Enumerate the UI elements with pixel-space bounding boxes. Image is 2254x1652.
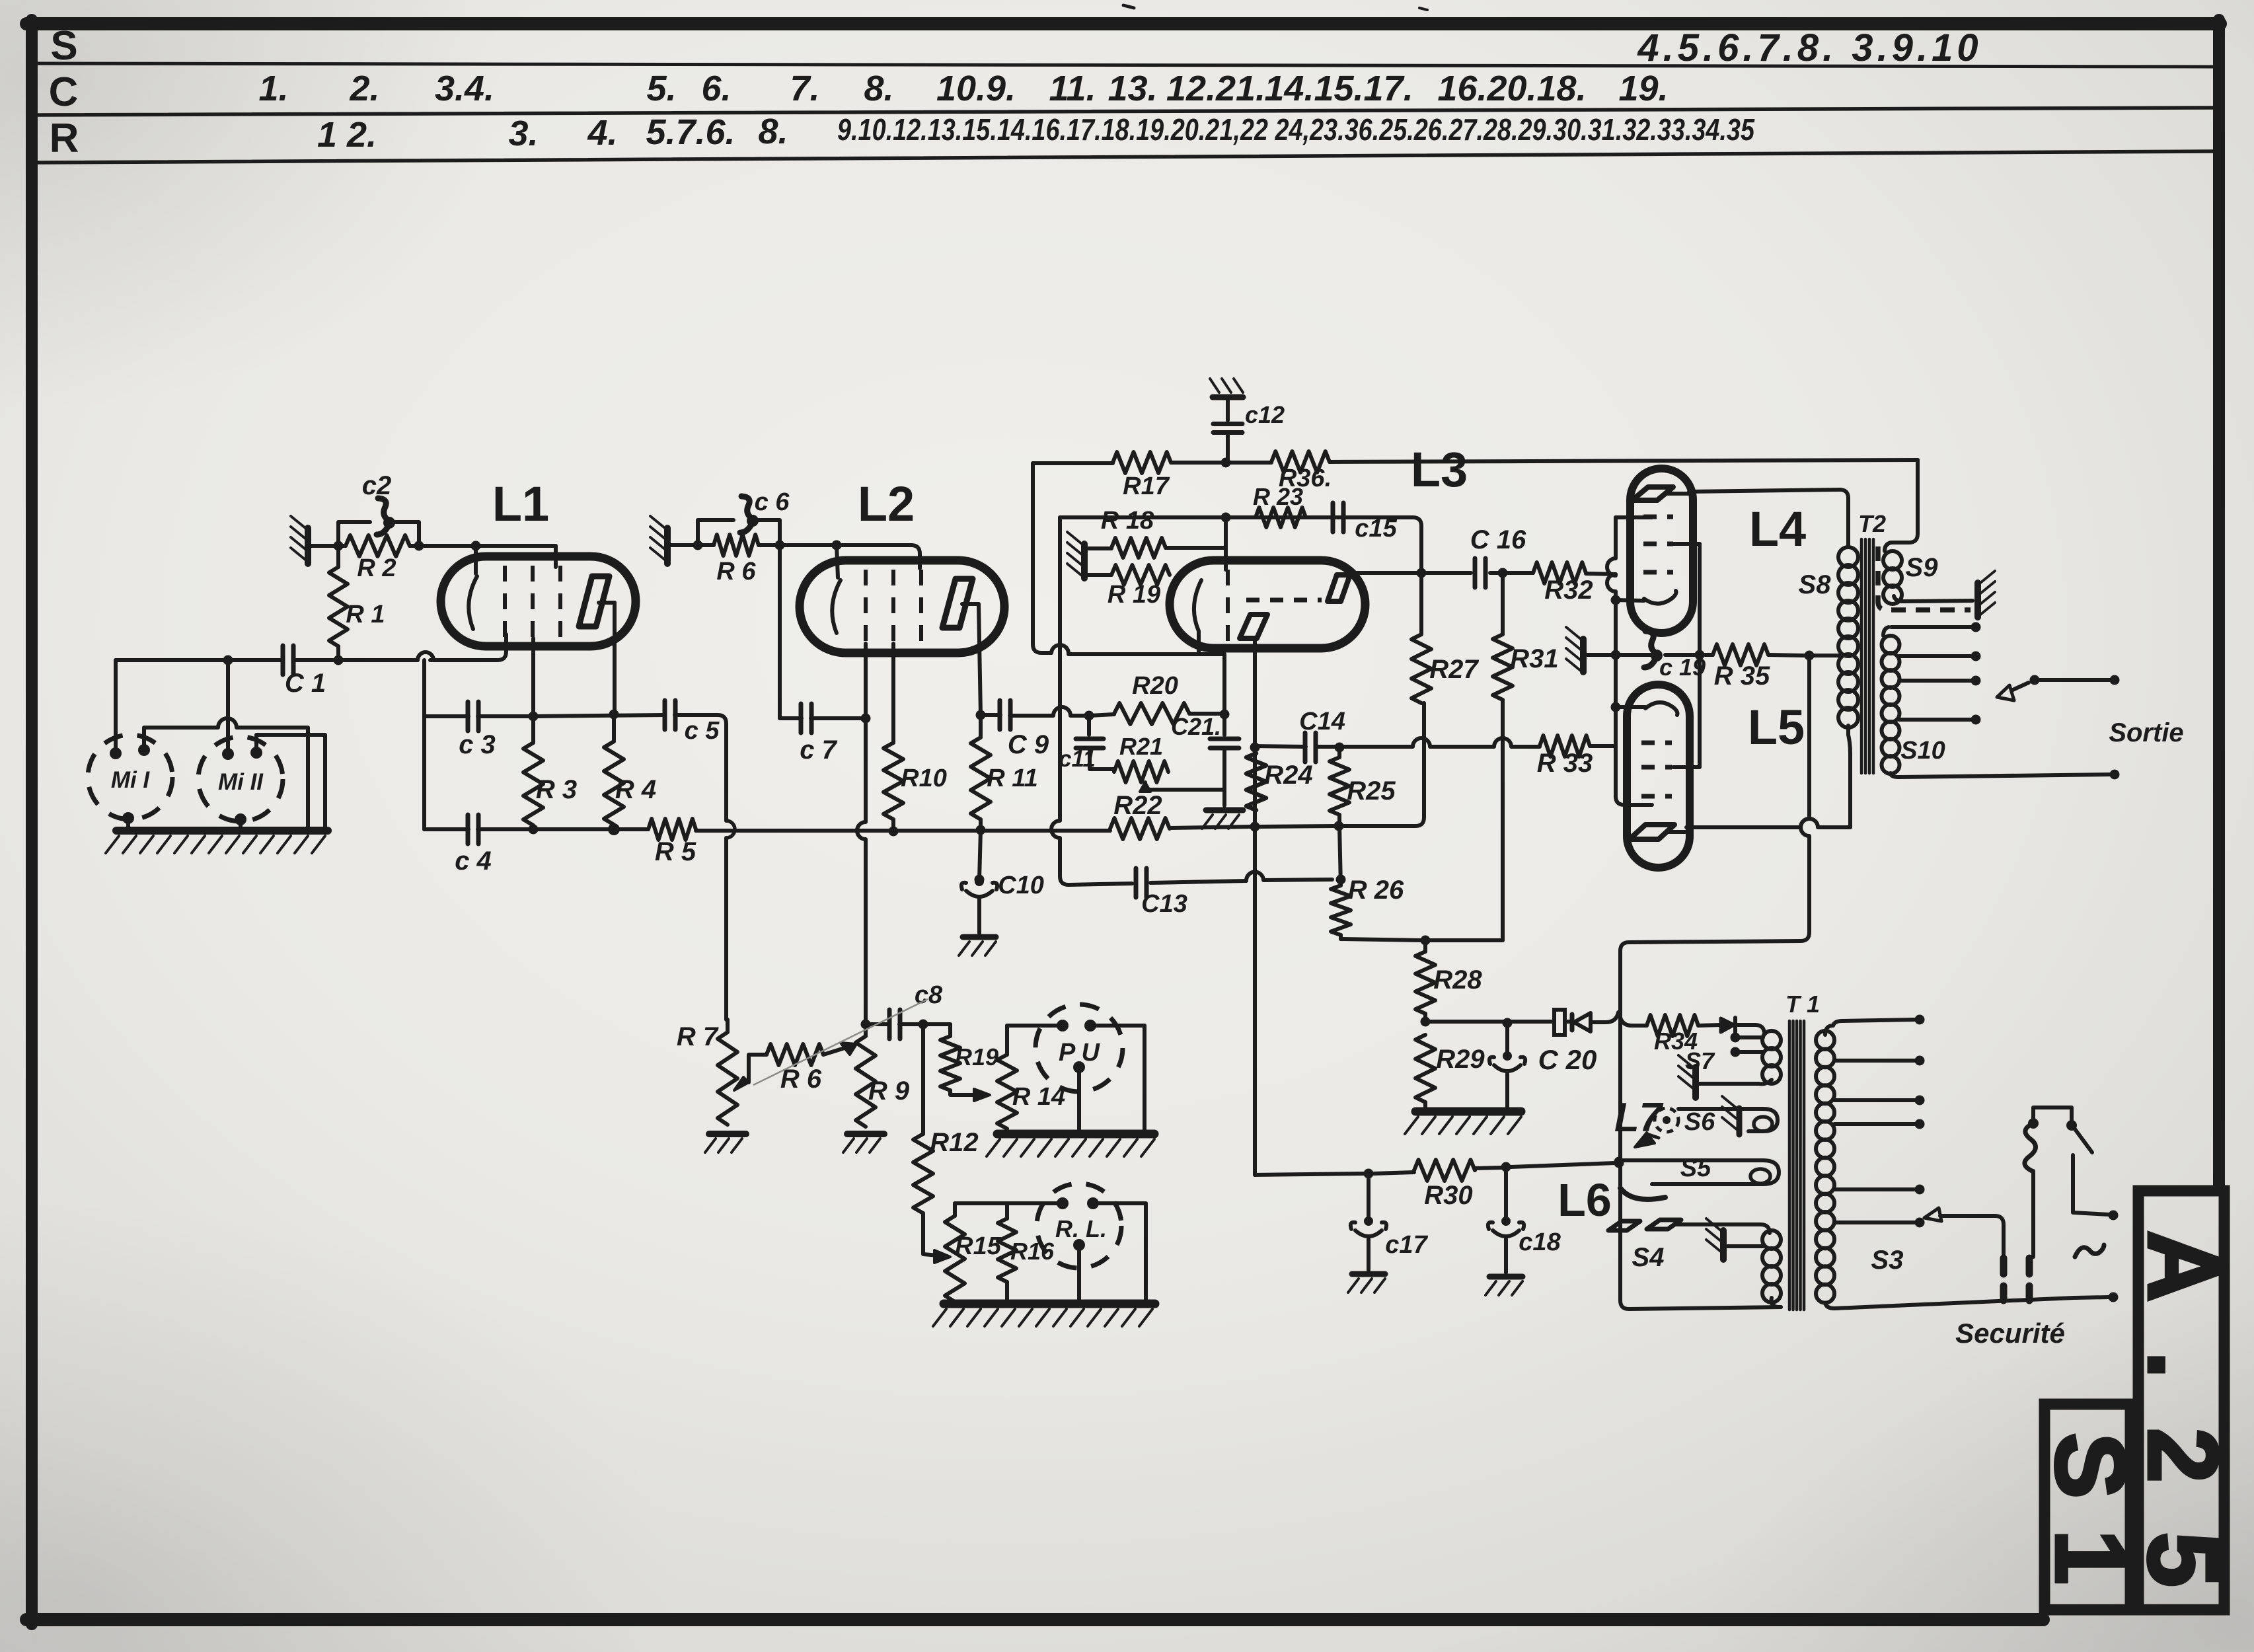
paper mark 1 bbox=[1123, 5, 1134, 8]
svg-text:R22: R22 bbox=[1113, 791, 1162, 820]
node L2 g1 bbox=[861, 714, 871, 724]
node C12 bbox=[1221, 458, 1231, 468]
label R30 bbox=[1424, 1181, 1472, 1210]
label C7 bbox=[800, 735, 837, 765]
L2 anode wire down bbox=[979, 604, 981, 715]
label R14 bbox=[1012, 1083, 1065, 1111]
L1 grid stem top bbox=[554, 546, 558, 567]
RL pins bbox=[1057, 1197, 1099, 1251]
wire L2g1 to R9 C8 bbox=[861, 1018, 928, 1030]
svg-text:11.: 11. bbox=[1049, 69, 1096, 108]
resistor R24 bbox=[1246, 753, 1266, 810]
ground under R7 bbox=[705, 1134, 746, 1152]
RL bottom stem bbox=[1077, 1245, 1081, 1299]
svg-text:c17: c17 bbox=[1385, 1231, 1428, 1259]
svg-text:R 33: R 33 bbox=[1537, 749, 1593, 778]
label Securite bbox=[1955, 1318, 2065, 1349]
faint gang line bbox=[753, 999, 928, 1085]
S4 coil bbox=[1762, 1230, 1781, 1307]
resistor R2 bbox=[346, 535, 410, 556]
resistor R29 bbox=[1415, 1035, 1435, 1109]
label R16 bbox=[1010, 1238, 1055, 1265]
svg-text:R 1: R 1 bbox=[346, 601, 385, 628]
capacitor C17 bbox=[1351, 1174, 1386, 1270]
HT rail bbox=[1033, 460, 1918, 463]
svg-text:R12: R12 bbox=[930, 1128, 978, 1157]
capacitor C5 bbox=[665, 700, 675, 730]
ground bar under mics bbox=[106, 831, 328, 853]
S10 taps bbox=[1899, 652, 1981, 725]
main bus left part bbox=[424, 827, 648, 831]
resistor R35 bbox=[1713, 644, 1768, 665]
L4 grid rows dashed bbox=[1643, 517, 1673, 572]
nodes on R2 line bbox=[334, 541, 481, 551]
svg-text:c 19: c 19 bbox=[1659, 654, 1706, 681]
svg-text:R28: R28 bbox=[1433, 965, 1482, 995]
wire input line to C1 bbox=[116, 658, 418, 662]
L6 cathode arc bbox=[1620, 1188, 1665, 1199]
S8 bottom to L5 anode bbox=[1848, 735, 1850, 827]
resistor R27 bbox=[1411, 568, 1431, 703]
mains plug pin2 bottom bbox=[2026, 1286, 2033, 1300]
S4 ground bbox=[1706, 1219, 1763, 1259]
ground for S7 bbox=[1678, 1055, 1759, 1098]
grid rail of L3 bbox=[1060, 517, 1421, 568]
svg-text:c 3: c 3 bbox=[459, 730, 496, 759]
S9 coil bbox=[1883, 543, 1972, 604]
L5 anode line out bbox=[1667, 819, 1850, 832]
node C20 top bbox=[1503, 1018, 1513, 1028]
svg-text:L1: L1 bbox=[492, 476, 549, 531]
wire Mi II right pin to ground bbox=[256, 735, 325, 827]
svg-text:C10: C10 bbox=[998, 872, 1044, 899]
mains switch blade bbox=[2074, 1127, 2092, 1152]
label L3 bbox=[1411, 442, 1468, 497]
svg-text:1 2.: 1 2. bbox=[317, 115, 377, 155]
L4 cathode bbox=[1644, 591, 1676, 604]
label C8 bbox=[915, 981, 943, 1009]
label C13 bbox=[1141, 890, 1187, 918]
ground in S6 bbox=[1722, 1096, 1739, 1135]
svg-text:S5: S5 bbox=[1680, 1154, 1711, 1182]
label C3 bbox=[459, 730, 496, 759]
resistor R28 bbox=[1415, 940, 1435, 1022]
svg-text:c12: c12 bbox=[1245, 401, 1285, 428]
label R24 bbox=[1264, 761, 1312, 790]
capacitor C8 bbox=[889, 1010, 900, 1039]
label S7 bbox=[1685, 1047, 1715, 1074]
label R7 bbox=[677, 1022, 719, 1051]
svg-text:L4: L4 bbox=[1749, 502, 1806, 556]
svg-text:R 11: R 11 bbox=[987, 765, 1037, 792]
label C12 bbox=[1245, 401, 1285, 428]
node R11 top bbox=[976, 710, 986, 720]
mains switch contacts bbox=[2028, 1118, 2077, 1131]
diode D2 bbox=[1721, 1018, 1735, 1032]
svg-text:R31: R31 bbox=[1510, 644, 1558, 673]
svg-text:16.20.18.: 16.20.18. bbox=[1437, 69, 1586, 108]
T2 screen dashed bbox=[1878, 546, 1971, 610]
node grid bus at C19 line bbox=[1611, 650, 1621, 660]
label R12 bbox=[930, 1128, 978, 1157]
wire C14 to R33 bbox=[1316, 738, 1540, 747]
label R3 bbox=[536, 775, 577, 804]
svg-text:L6: L6 bbox=[1558, 1174, 1612, 1226]
table line under C bbox=[38, 108, 2213, 115]
svg-text:R 9: R 9 bbox=[868, 1076, 910, 1106]
S5 hairpin bbox=[1620, 1160, 1779, 1184]
node R20 right bbox=[1220, 710, 1230, 720]
label C20 bbox=[1538, 1044, 1597, 1075]
trimmer C2 loop bbox=[338, 522, 419, 546]
L3 cathode return line bbox=[1051, 645, 1224, 735]
svg-text:R17: R17 bbox=[1123, 472, 1170, 500]
label R17 bbox=[1123, 472, 1170, 500]
L3 cathode bbox=[1194, 580, 1201, 654]
svg-text:R10: R10 bbox=[901, 765, 947, 792]
svg-text:R20: R20 bbox=[1132, 672, 1178, 700]
node C10 top bbox=[975, 875, 985, 885]
label R4 bbox=[615, 775, 656, 804]
label R23 bbox=[1253, 483, 1303, 510]
ground under C18 bbox=[1485, 1277, 1522, 1295]
label R26 bbox=[1348, 876, 1404, 905]
resistor R31 bbox=[1493, 573, 1513, 932]
wire C5 right corner down bbox=[675, 715, 726, 1020]
svg-text:Mi I: Mi I bbox=[111, 767, 151, 793]
resistor R30 bbox=[1414, 1160, 1475, 1181]
S10 bottom line bbox=[1899, 770, 2120, 780]
wire Mi I left pin up bbox=[114, 660, 118, 753]
label C17 bbox=[1385, 1231, 1428, 1259]
L1 grid1 wire bottom bbox=[0, 0, 1, 1]
label R6 bbox=[780, 1065, 822, 1094]
resistor R34 bbox=[1647, 1015, 1698, 1036]
output selector arrow bbox=[1997, 675, 2120, 701]
L1 grids dashed bbox=[505, 566, 560, 638]
svg-text:C: C bbox=[49, 69, 79, 115]
resistor R16 bbox=[998, 1203, 1016, 1302]
label S4 bbox=[1632, 1243, 1665, 1272]
svg-text:5.7.6.: 5.7.6. bbox=[646, 112, 735, 152]
svg-text:R. L.: R. L. bbox=[1055, 1215, 1107, 1242]
label R19 bbox=[1108, 581, 1160, 609]
svg-text:S7: S7 bbox=[1685, 1047, 1715, 1074]
node C11 top bbox=[1084, 711, 1094, 721]
svg-text:R25: R25 bbox=[1347, 776, 1396, 806]
svg-text:S10: S10 bbox=[1900, 737, 1945, 765]
svg-text:8.: 8. bbox=[758, 112, 788, 151]
wire R24 vertical bbox=[1250, 743, 1260, 1176]
main bus middle bbox=[696, 825, 1110, 837]
label RL bbox=[1055, 1215, 1107, 1242]
L4 anode line out bbox=[1665, 490, 1840, 494]
resistor R15 bbox=[945, 1203, 965, 1302]
capacitor C14 bbox=[1255, 733, 1316, 762]
label S9 bbox=[1906, 553, 1939, 582]
PU bottom stem bbox=[1077, 1067, 1081, 1130]
svg-text:C 9: C 9 bbox=[1008, 730, 1049, 759]
trimmer capacitor C2 bbox=[377, 498, 395, 535]
svg-text:R 5: R 5 bbox=[655, 837, 696, 866]
svg-text:c8: c8 bbox=[915, 981, 943, 1009]
svg-text:C 1: C 1 bbox=[285, 669, 326, 698]
vertical 1604 to C13 bbox=[1051, 517, 1132, 885]
L2 cathode bbox=[832, 545, 841, 633]
label R27 bbox=[1429, 655, 1479, 684]
svg-text:c18: c18 bbox=[1519, 1228, 1561, 1256]
label PU bbox=[1059, 1039, 1100, 1067]
R12 arrow to R15 bbox=[923, 1213, 950, 1263]
label C4 bbox=[455, 846, 492, 876]
wire Mi I bottom to ground bbox=[126, 818, 130, 827]
wire C1 line hop and corner into L1 grid bbox=[430, 634, 506, 660]
tube L5 envelope bbox=[1627, 685, 1690, 868]
S7 coil bbox=[1759, 1031, 1781, 1084]
svg-text:c 5: c 5 bbox=[685, 717, 720, 745]
svg-text:C13: C13 bbox=[1141, 890, 1187, 918]
resistor R6a bbox=[714, 535, 759, 556]
grid bus top into L4 bbox=[1616, 515, 1652, 519]
PU box top bbox=[1007, 1024, 1145, 1028]
label C6 bbox=[755, 488, 790, 516]
label L7 bbox=[1614, 1095, 1664, 1141]
svg-text:R15: R15 bbox=[955, 1232, 1002, 1260]
svg-text:L5: L5 bbox=[1748, 700, 1805, 755]
resistor R3 bbox=[523, 716, 543, 825]
capacitor C15 bbox=[1306, 503, 1413, 532]
S row values bbox=[1637, 26, 1982, 69]
S3 taps bbox=[1834, 1056, 1925, 1228]
resistor R22 bbox=[1110, 818, 1170, 839]
R19 arrow to R14 bbox=[950, 1089, 990, 1101]
label S1 bbox=[2035, 1433, 2146, 1585]
svg-text:R 18: R 18 bbox=[1101, 507, 1154, 535]
box A25 bbox=[2138, 1191, 2224, 1610]
label R36 bbox=[1279, 465, 1332, 492]
capacitor C16 bbox=[1475, 558, 1485, 587]
mic jack Mi II bbox=[198, 737, 283, 821]
label R32 bbox=[1544, 576, 1593, 605]
L7 arrow bbox=[1635, 1133, 1659, 1147]
ground under C17 bbox=[1348, 1274, 1385, 1293]
tube L2 envelope bbox=[800, 560, 1004, 653]
wire R11bus to C10 bbox=[979, 830, 981, 880]
R34 line bbox=[1620, 1018, 1721, 1026]
C row values bbox=[258, 69, 1668, 108]
capacitor C13 bbox=[1136, 868, 1346, 897]
AC tilde bbox=[2075, 1245, 2104, 1257]
svg-text:R 2: R 2 bbox=[357, 554, 396, 582]
svg-text:6.: 6. bbox=[701, 69, 731, 108]
mains selector arrow bbox=[1924, 1208, 2004, 1257]
resistor R14 bbox=[997, 1026, 1017, 1129]
svg-text:5.: 5. bbox=[646, 69, 676, 108]
svg-text:R 4: R 4 bbox=[615, 775, 656, 804]
wire vertical 642 bbox=[422, 660, 426, 829]
label Mi II bbox=[218, 769, 264, 795]
label R15 bbox=[955, 1232, 1002, 1260]
svg-text:R 26: R 26 bbox=[1348, 876, 1404, 905]
L1 anode bbox=[579, 576, 615, 626]
resistor R12 bbox=[913, 1024, 933, 1213]
wire diode line bbox=[1425, 1012, 1618, 1022]
capacitor C18 bbox=[1488, 1167, 1524, 1273]
label C10 bbox=[998, 872, 1044, 899]
label R25 bbox=[1347, 776, 1396, 806]
svg-text:L3: L3 bbox=[1411, 442, 1468, 497]
wire R2 line bbox=[321, 544, 556, 548]
capacitor C9 bbox=[1000, 700, 1010, 730]
label R35 bbox=[1714, 661, 1770, 691]
table row label S bbox=[50, 23, 77, 69]
R row values part2 bbox=[837, 112, 1755, 147]
L5 cathode bbox=[1645, 702, 1678, 715]
tube L4 envelope bbox=[1630, 469, 1693, 633]
svg-text:13.: 13. bbox=[1108, 69, 1157, 108]
resistor R23 bbox=[1256, 507, 1306, 527]
svg-text:c15: c15 bbox=[1355, 515, 1397, 543]
node R4 top bbox=[609, 710, 619, 720]
svg-text:Securité: Securité bbox=[1955, 1318, 2065, 1349]
label R34 bbox=[1654, 1028, 1698, 1055]
resistor R5 bbox=[648, 819, 696, 840]
label R20 bbox=[1132, 672, 1178, 700]
label R29 bbox=[1436, 1045, 1485, 1074]
label Mi I bbox=[111, 767, 151, 793]
table line under R bbox=[38, 151, 2213, 163]
wire R25bottom to R26top bbox=[1339, 826, 1341, 885]
svg-text:C 20: C 20 bbox=[1538, 1044, 1597, 1075]
label R22 bbox=[1113, 791, 1162, 820]
label S6 bbox=[1684, 1108, 1715, 1136]
S3 tap1 bbox=[1833, 1015, 1925, 1026]
hop over vertical at 638 bbox=[418, 652, 433, 660]
ground for C19 line bbox=[1566, 627, 1583, 672]
S7 wire in bbox=[1735, 1025, 1764, 1034]
resistor R10 bbox=[883, 644, 903, 831]
mic jack Mi I bbox=[88, 735, 172, 819]
label A25 bbox=[2128, 1230, 2239, 1587]
svg-text:R27: R27 bbox=[1429, 655, 1479, 684]
svg-text:S4: S4 bbox=[1632, 1243, 1665, 1272]
svg-text:R: R bbox=[50, 116, 79, 161]
capacitor C10 bbox=[961, 877, 997, 933]
T1 core bbox=[1789, 1021, 1804, 1310]
svg-text:12.21.: 12.21. bbox=[1166, 69, 1265, 108]
ground bar PU bbox=[987, 1134, 1154, 1156]
svg-text:T 1: T 1 bbox=[1785, 991, 1820, 1018]
label R11 bbox=[987, 765, 1037, 792]
label R10 bbox=[901, 765, 947, 792]
T2 core bbox=[1861, 539, 1873, 773]
fuse bbox=[1554, 1010, 1565, 1035]
label C19 bbox=[1659, 654, 1706, 681]
svg-text:8.: 8. bbox=[864, 69, 893, 108]
label R18 bbox=[1101, 507, 1154, 535]
resistor R1 bbox=[329, 546, 348, 660]
tube L1 envelope bbox=[441, 556, 636, 646]
paper mark 2 bbox=[1419, 8, 1427, 10]
wire L2 g1 vertical bbox=[857, 644, 866, 1018]
node on C1 line bbox=[223, 656, 233, 665]
svg-text:R 14: R 14 bbox=[1012, 1083, 1065, 1111]
label C2 bbox=[362, 471, 392, 500]
svg-text:Mi II: Mi II bbox=[218, 769, 264, 795]
label C15 bbox=[1355, 515, 1397, 543]
resistor R36 bbox=[1271, 451, 1330, 472]
wire C7 line bbox=[780, 545, 866, 718]
svg-text:R16: R16 bbox=[1010, 1238, 1055, 1265]
mains plug pin2 top bbox=[2026, 1258, 2033, 1274]
volume pot R7 wire bbox=[726, 1020, 730, 1032]
mains switch wire right bbox=[2073, 1155, 2119, 1220]
ground under C21 bbox=[1202, 810, 1243, 829]
nodes on R6 line bbox=[693, 541, 842, 550]
label R2 bbox=[357, 554, 396, 582]
ground for R2 bbox=[291, 516, 321, 564]
resistor R11 bbox=[971, 715, 991, 830]
table row label R bbox=[50, 116, 79, 161]
RL jack circle bbox=[1037, 1183, 1121, 1268]
wire R26 bottom line bbox=[1341, 932, 1503, 946]
resistor R6 pot link bbox=[734, 1044, 823, 1090]
node screen bus at C19 line bbox=[1695, 650, 1705, 660]
grid bus vertical L4 L5 bbox=[1607, 517, 1652, 805]
wire vertical 2738 bbox=[1620, 656, 1809, 1300]
L2 anode bbox=[942, 579, 979, 628]
svg-text:c 6: c 6 bbox=[755, 488, 790, 516]
resistor R19 bbox=[1084, 565, 1170, 585]
L3 grid stem bbox=[1224, 517, 1228, 570]
wire L1 g3 down bbox=[531, 638, 535, 716]
label S3 bbox=[1871, 1246, 1904, 1275]
svg-text:9.10.12.13.15.14.16.17.18.19.2: 9.10.12.13.15.14.16.17.18.19.20.21,22 24… bbox=[837, 112, 1755, 147]
svg-text:R 6: R 6 bbox=[716, 558, 756, 585]
svg-text:R21: R21 bbox=[1119, 733, 1163, 760]
svg-text:4.: 4. bbox=[587, 113, 617, 153]
L3 anode line bbox=[1356, 568, 1533, 578]
mains line bottom bbox=[2074, 1293, 2119, 1302]
resistor R7 bbox=[718, 1032, 737, 1125]
ground under C10 bbox=[959, 937, 996, 956]
svg-text:T2: T2 bbox=[1858, 510, 1886, 537]
capacitor C7 bbox=[801, 704, 811, 733]
PU pins bbox=[1057, 1020, 1096, 1073]
svg-text:C 16: C 16 bbox=[1470, 525, 1526, 554]
S3 bottom line bbox=[1834, 1298, 2074, 1308]
svg-text:C14: C14 bbox=[1299, 708, 1345, 735]
C19 R35 line bbox=[1583, 651, 1840, 661]
resistor R4 bbox=[604, 714, 624, 825]
R6 arrow to R9 bbox=[823, 1043, 856, 1055]
svg-text:2.: 2. bbox=[349, 69, 379, 108]
label R5 bbox=[655, 837, 696, 866]
label C5 bbox=[685, 717, 720, 745]
label L4 bbox=[1749, 502, 1806, 556]
RL box top bbox=[955, 1201, 1146, 1205]
trimmer capacitor C19 bbox=[1644, 631, 1663, 667]
label R21 bbox=[1119, 733, 1163, 760]
resistor R32 bbox=[1533, 562, 1616, 583]
L3 plate right bbox=[1328, 575, 1350, 601]
svg-text:S9: S9 bbox=[1906, 553, 1939, 582]
label S5 bbox=[1680, 1154, 1711, 1182]
svg-text:7.: 7. bbox=[790, 69, 819, 108]
svg-text:14.15.17.: 14.15.17. bbox=[1264, 69, 1413, 108]
svg-text:R29: R29 bbox=[1436, 1045, 1485, 1074]
node R3 bottom bbox=[529, 825, 539, 835]
